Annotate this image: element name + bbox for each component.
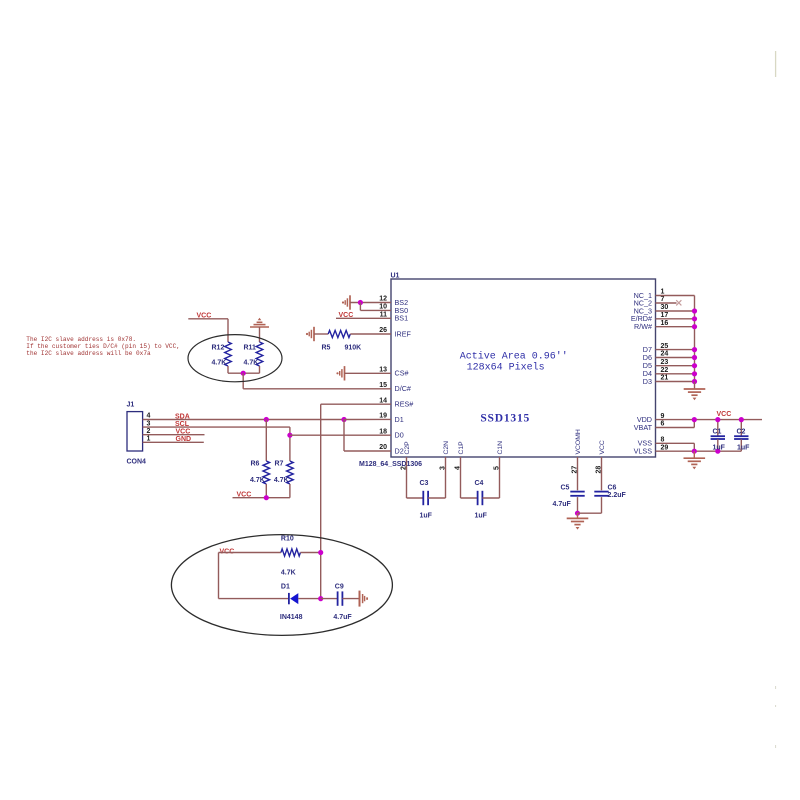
svg-text:24: 24 <box>661 351 669 358</box>
wire C1P to C4 <box>461 497 478 499</box>
node pin 24/bus <box>692 355 697 360</box>
wire left branch down <box>218 553 220 599</box>
capacitor C9 <box>337 591 339 605</box>
svg-text:C2: C2 <box>737 429 746 436</box>
svg-text:VBAT: VBAT <box>634 423 653 432</box>
wire D pin 21 <box>656 381 695 383</box>
wire ground to R11 <box>259 327 261 342</box>
svg-text:the I2C slave address will be: the I2C slave address will be 0x7a <box>26 350 151 357</box>
wire D1 to pin 19 <box>344 418 391 420</box>
svg-text:4.7uF: 4.7uF <box>553 501 572 508</box>
svg-text:910K: 910K <box>345 345 362 352</box>
svg-text:M128_64_SSD1306: M128_64_SSD1306 <box>359 461 422 468</box>
connector J1 <box>127 412 143 451</box>
wire C4 to C1N <box>482 497 499 499</box>
svg-text:20: 20 <box>379 444 387 451</box>
svg-text:25: 25 <box>661 343 669 350</box>
svg-text:15: 15 <box>379 382 387 389</box>
svg-text:J1: J1 <box>127 402 135 409</box>
svg-text:If the customer ties D/C# (pin: If the customer ties D/C# (pin 15) to VC… <box>26 343 180 350</box>
svg-text:23: 23 <box>661 359 669 366</box>
wire E/RD# pin 17 <box>656 318 695 320</box>
svg-text:R12: R12 <box>212 345 225 352</box>
wire NC bus vertical <box>694 296 696 382</box>
wire D0 to pin 18 <box>290 434 391 436</box>
wire D pin 23 <box>656 365 695 367</box>
wire R7 bottom lead <box>289 484 291 498</box>
wire R12 bottom <box>227 366 229 373</box>
svg-text:4: 4 <box>147 413 151 420</box>
wire VCC to R12 <box>188 318 228 320</box>
no-connect X on pin 7 <box>676 300 681 305</box>
wire C2P stub <box>406 457 408 498</box>
svg-text:VLSS: VLSS <box>634 447 653 456</box>
svg-text:4.7uF: 4.7uF <box>333 614 352 621</box>
svg-text:C9: C9 <box>335 583 344 590</box>
wire D pin 22 <box>656 373 695 375</box>
wire VSS pin 8 <box>656 442 695 444</box>
svg-text:R5: R5 <box>322 345 331 352</box>
diode D1 <box>288 593 290 604</box>
wire to diode D1 <box>219 598 289 600</box>
node pin 22/bus <box>692 371 697 376</box>
svg-text:Active Area 0.96'': Active Area 0.96'' <box>460 350 568 362</box>
node pin17/bus <box>692 316 697 321</box>
wire bus to ground <box>694 382 696 389</box>
svg-text:16: 16 <box>661 320 669 327</box>
wire SCL <box>143 426 290 428</box>
svg-text:19: 19 <box>379 413 387 420</box>
resistor R6 <box>263 461 270 484</box>
svg-text:1uF: 1uF <box>713 444 726 451</box>
ground at BS2 <box>349 295 351 309</box>
node C1 bottom <box>715 449 720 454</box>
wire SDA <box>143 419 344 421</box>
wire BS2 pin 12 <box>350 302 391 304</box>
node pin 25/bus <box>692 347 697 352</box>
svg-text:29: 29 <box>661 444 669 451</box>
wire VCOMH stub <box>577 457 579 490</box>
wire VLSS pin 29 / ground rail <box>656 450 742 452</box>
wire SCL corner down (R7) <box>289 427 291 461</box>
svg-text:12: 12 <box>379 296 387 303</box>
svg-text:R10: R10 <box>281 536 294 543</box>
wire BS0 branch <box>359 303 361 311</box>
svg-text:CS#: CS# <box>395 369 409 378</box>
svg-text:C2N: C2N <box>443 441 450 455</box>
wire divider to D/C# pin 15 <box>242 373 244 389</box>
node VSS/VLSS junction <box>692 449 697 454</box>
svg-text:IREF: IREF <box>395 329 412 338</box>
capacitor C3 <box>422 491 424 505</box>
op IC U1 SSD1315 body <box>391 279 656 457</box>
capacitor C1 <box>717 420 719 436</box>
node pin16/bus <box>692 324 697 329</box>
svg-text:RES#: RES# <box>395 400 414 409</box>
ellipse around R10 D1 C9 <box>171 535 392 636</box>
svg-text:VCOMH: VCOMH <box>575 429 582 454</box>
node C2 top <box>739 417 744 422</box>
node SCL/D0 junction <box>287 433 292 438</box>
svg-text:U1: U1 <box>391 272 400 279</box>
svg-text:R/W#: R/W# <box>634 322 652 331</box>
node BS2/BS0 junction <box>358 300 363 305</box>
wire junction to C9 <box>321 598 338 600</box>
wire diode to junction <box>298 598 320 600</box>
svg-text:18: 18 <box>379 428 387 435</box>
svg-text:R11: R11 <box>244 345 257 352</box>
wire NC_1 pin 1 <box>656 295 695 297</box>
wire VDD pin 9 / VCC rail <box>656 419 763 421</box>
wire R6 bottom lead <box>265 484 267 498</box>
node pin30/bus <box>692 308 697 313</box>
svg-text:2.2uF: 2.2uF <box>608 492 627 499</box>
svg-text:D2: D2 <box>395 446 404 455</box>
wire D2 branch <box>343 420 345 452</box>
svg-text:4.7K: 4.7K <box>250 477 265 484</box>
svg-text:R6: R6 <box>251 460 260 467</box>
ellipse around R12 R11 <box>188 335 282 382</box>
svg-text:D1: D1 <box>281 583 290 590</box>
resistor R7 <box>287 461 294 484</box>
capacitor C5 <box>570 491 584 493</box>
wire VCC pin28 stub <box>601 457 603 490</box>
svg-text:26: 26 <box>379 327 387 334</box>
wire ground to R5 <box>314 333 328 335</box>
wire VCC stub from J1 <box>143 434 205 436</box>
svg-text:C6: C6 <box>608 485 617 492</box>
ground below C5 C6 <box>577 513 579 518</box>
svg-text:3: 3 <box>147 420 151 427</box>
svg-text:1: 1 <box>661 289 665 296</box>
svg-text:22: 22 <box>661 367 669 374</box>
svg-text:17: 17 <box>661 312 669 319</box>
svg-text:21: 21 <box>661 375 669 382</box>
svg-text:C1: C1 <box>713 428 722 435</box>
svg-text:C4: C4 <box>475 480 484 487</box>
ground at VSS <box>684 457 706 459</box>
resistor R5 <box>328 330 350 337</box>
node pin 23/bus <box>692 363 697 368</box>
wire C9 to ground <box>342 598 359 600</box>
capacitor C6 <box>594 491 608 493</box>
ground at CS# <box>344 366 346 380</box>
svg-text:8: 8 <box>661 437 665 444</box>
resistor R12 <box>225 342 232 366</box>
svg-text:9: 9 <box>661 413 665 420</box>
node C1 top <box>715 417 720 422</box>
svg-text:1uF: 1uF <box>475 513 488 520</box>
svg-text:1uF: 1uF <box>420 513 433 520</box>
wire R5 to IREF pin 26 <box>350 333 391 335</box>
svg-text:SSD1315: SSD1315 <box>480 412 530 424</box>
wire C2P to C3 <box>407 497 424 499</box>
inverted ground above R11 <box>250 326 269 328</box>
wire R10 to RES# line <box>300 552 320 554</box>
svg-text:IN4148: IN4148 <box>280 614 303 621</box>
svg-text:BS1: BS1 <box>395 314 409 323</box>
svg-text:4.7K: 4.7K <box>244 360 259 367</box>
svg-text:4.7K: 4.7K <box>281 569 296 576</box>
svg-text:C1P: C1P <box>458 441 465 455</box>
wire pullup VCC rail <box>233 497 290 499</box>
sheet border remnant <box>775 51 777 77</box>
node R10/RES# junction <box>318 550 323 555</box>
svg-text:2: 2 <box>147 428 151 435</box>
svg-text:CON4: CON4 <box>127 459 147 466</box>
svg-text:C2P: C2P <box>404 441 411 455</box>
wire NC_2 pin 7 <box>656 302 677 304</box>
wire D pin 24 <box>656 357 695 359</box>
svg-text:4.7K: 4.7K <box>274 477 289 484</box>
wire VBAT pin 6 <box>656 427 695 429</box>
wire GND stub from J1 <box>143 441 204 443</box>
svg-text:4.7K: 4.7K <box>212 360 227 367</box>
wire NC_3 pin 30 <box>656 310 695 312</box>
svg-text:D/C#: D/C# <box>395 384 411 393</box>
wire RES# pin 14 <box>321 403 391 405</box>
wire C3 to C2N <box>428 497 445 499</box>
node divider junction <box>241 371 246 376</box>
wire VSS ground stem <box>693 451 695 457</box>
ground at C9 <box>359 591 361 607</box>
svg-text:7: 7 <box>661 296 665 303</box>
svg-text:D1: D1 <box>395 415 404 424</box>
node D1/C9 junction <box>318 596 323 601</box>
node SDA/D1 junction <box>341 417 346 422</box>
wire R11 bottom <box>259 366 261 373</box>
resistor R10 <box>281 549 301 556</box>
wire C5 bottom <box>577 497 579 513</box>
wire C6 bottom <box>601 497 603 513</box>
svg-text:VCC: VCC <box>599 440 606 454</box>
svg-text:D0: D0 <box>395 431 404 440</box>
svg-text:11: 11 <box>380 312 388 319</box>
capacitor C2 <box>740 420 742 436</box>
svg-text:30: 30 <box>661 304 669 311</box>
node C5/C6 ground junction <box>575 511 580 516</box>
svg-text:14: 14 <box>379 397 387 404</box>
ground at R5 <box>313 327 315 341</box>
svg-text:R7: R7 <box>275 460 284 467</box>
svg-text:C5: C5 <box>561 485 570 492</box>
wire D pin 25 <box>656 349 695 351</box>
svg-text:10: 10 <box>379 304 387 311</box>
svg-text:C1N: C1N <box>497 441 504 455</box>
capacitor C4 <box>477 491 479 505</box>
svg-text:6: 6 <box>661 421 665 428</box>
wire R6 top lead <box>265 420 267 462</box>
svg-text:D3: D3 <box>643 377 652 386</box>
svg-text:128x64 Pixels: 128x64 Pixels <box>467 362 545 374</box>
wire VCC to R10 <box>219 552 281 554</box>
svg-text:C3: C3 <box>420 480 429 487</box>
svg-text:13: 13 <box>379 367 387 374</box>
wire C2N stub <box>445 457 447 498</box>
node pin 21/bus <box>692 379 697 384</box>
svg-text:The I2C slave address is 0x78.: The I2C slave address is 0x78. <box>26 336 136 343</box>
svg-text:1uF: 1uF <box>737 444 750 451</box>
wire C1P stub <box>460 457 462 498</box>
wire C1N stub <box>499 457 501 498</box>
wire BS1 pin 11 <box>336 317 391 319</box>
ground at NC/data bus <box>684 388 706 390</box>
node rail/R6 junction <box>264 495 269 500</box>
svg-text:VCC: VCC <box>717 411 732 418</box>
wire RES# vertical to D1 circuit <box>320 404 322 598</box>
wire R/W# pin 16 <box>656 326 695 328</box>
node SDA/R6 junction <box>264 417 269 422</box>
wire CS# pin 13 <box>345 372 392 374</box>
resistor R11 <box>256 342 263 366</box>
svg-text:1: 1 <box>147 436 151 443</box>
node VDD/VBAT junction <box>692 417 697 422</box>
